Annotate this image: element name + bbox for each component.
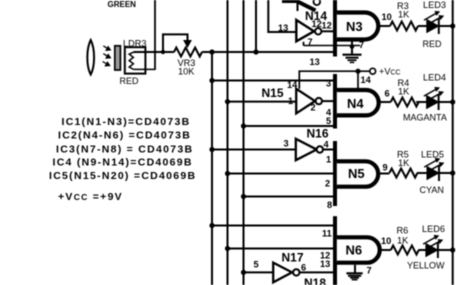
svg-text:14: 14	[361, 75, 372, 85]
AND gate N5	[337, 161, 378, 186]
wire N6 output	[379, 249, 391, 251]
green sense line	[154, 0, 156, 70]
svg-text:LED3: LED3	[423, 0, 446, 10]
ground (row1)	[343, 55, 362, 63]
light arrows into LDR3	[103, 46, 111, 66]
LED common bus	[452, 0, 454, 285]
svg-text:1K: 1K	[398, 87, 410, 97]
wire N5 pin2	[225, 171, 230, 176]
svg-text:CYAN: CYAN	[420, 185, 444, 195]
svg-text:3: 3	[284, 139, 289, 149]
wire R6 to LED6	[419, 249, 427, 251]
svg-text:1: 1	[288, 96, 293, 106]
svg-text:3: 3	[326, 79, 331, 89]
AND gate N3	[337, 13, 379, 40]
AND gate N6	[337, 237, 380, 262]
ground (row4)	[354, 265, 356, 273]
wire pin14 to N4 top	[357, 71, 359, 90]
resistor R5	[389, 169, 417, 178]
svg-text:LED6: LED6	[422, 224, 445, 234]
wire LED6 to bus	[438, 249, 453, 251]
svg-text:N15: N15	[262, 86, 284, 100]
svg-text:10: 10	[381, 236, 391, 246]
wire N17 out to N6	[300, 271, 335, 273]
svg-text:IC5(N15-N20) =CD4069B: IC5(N15-N20) =CD4069B	[49, 170, 196, 182]
wire +Vcc rail (row2)	[299, 71, 370, 89]
svg-text:12: 12	[312, 19, 322, 29]
svg-text:13: 13	[320, 259, 330, 269]
bus line D	[255, 0, 257, 52]
junction main wire to bus A	[209, 49, 214, 54]
+Vcc terminal	[370, 68, 376, 74]
wire N16 out to N5	[323, 149, 335, 151]
wire LDR bottom to green line	[133, 68, 155, 70]
AND gate N6 input bar	[333, 216, 337, 285]
svg-text:11: 11	[322, 229, 332, 239]
wire N14 output to N3	[321, 30, 334, 32]
resistor R6	[391, 246, 419, 255]
svg-text:+VCC =+9V: +VCC =+9V	[58, 191, 123, 203]
wire N4 pin3	[209, 78, 214, 83]
svg-text:N5: N5	[348, 166, 365, 181]
wire R4 to LED4	[416, 101, 427, 103]
wire LED3 to bus	[439, 25, 453, 27]
AND gate N3 input bar	[333, 0, 337, 57]
svg-text:5: 5	[326, 116, 331, 126]
bus line C	[243, 0, 245, 285]
wire R3 to LED3	[418, 25, 427, 27]
wire N3 pin7 stem	[351, 42, 353, 55]
wire N15 input	[225, 99, 230, 104]
wire N6 pin12	[225, 246, 230, 251]
svg-text:RED: RED	[120, 76, 140, 86]
svg-text:LED5: LED5	[421, 150, 444, 160]
wire N5 output	[378, 173, 389, 175]
svg-text:6: 6	[385, 89, 390, 99]
AND gate N4	[337, 90, 379, 115]
resistor R4	[391, 98, 419, 107]
svg-text:1K: 1K	[398, 10, 410, 20]
svg-text:5: 5	[254, 260, 259, 270]
LED6	[423, 235, 443, 258]
svg-text:IC1(N1-N3)=CD4073B: IC1(N1-N3)=CD4073B	[62, 116, 191, 128]
inverter N13 fragment (cut by top edge)	[282, 0, 320, 11]
svg-text:2: 2	[311, 103, 316, 113]
inverter N16	[296, 139, 323, 160]
resistor R3	[390, 22, 418, 31]
svg-text:13: 13	[310, 57, 320, 67]
svg-text:13: 13	[278, 23, 288, 33]
wire N17 input	[241, 270, 246, 275]
svg-text:1K: 1K	[397, 236, 409, 246]
svg-text:12: 12	[322, 21, 332, 31]
svg-text:N6: N6	[346, 243, 363, 258]
svg-text:GREEN: GREEN	[108, 0, 137, 9]
potentiometer VR3	[163, 34, 202, 56]
lens	[87, 40, 94, 75]
svg-text:10K: 10K	[178, 67, 195, 77]
svg-text:6: 6	[301, 263, 306, 273]
svg-text:N4: N4	[347, 96, 364, 111]
svg-text:4: 4	[324, 140, 330, 150]
wire N14 input pin 13	[268, 0, 295, 32]
wire N4 output	[379, 101, 391, 103]
svg-text:7: 7	[367, 266, 372, 276]
svg-text:1: 1	[326, 155, 331, 165]
svg-text:N3: N3	[346, 19, 363, 34]
wire N5 pin8	[241, 194, 246, 199]
svg-text:R6: R6	[397, 226, 409, 236]
wire IC4 pin7 ground lead	[304, 45, 361, 47]
svg-text:RED: RED	[423, 39, 443, 49]
AND gate N4 input bar	[333, 74, 337, 129]
AND gate N5 input bar	[333, 141, 337, 206]
svg-text:YELLOW: YELLOW	[407, 261, 445, 271]
svg-text:1K: 1K	[398, 158, 410, 168]
svg-text:MAGANTA: MAGANTA	[403, 113, 447, 123]
LDR3 photoresistor bar	[115, 46, 121, 70]
svg-text:N16: N16	[307, 127, 329, 141]
wire N15 out to N4	[322, 100, 335, 102]
wire N16 input	[209, 147, 214, 152]
svg-text:IC2(N4-N6) =CD4073B: IC2(N4-N6) =CD4073B	[58, 130, 191, 142]
wire N6 pin11	[209, 223, 214, 228]
inverter N17	[273, 263, 299, 283]
svg-text:7: 7	[359, 40, 364, 50]
LED4	[424, 87, 444, 110]
svg-text:2: 2	[325, 179, 330, 189]
svg-text:IC4 (N9-N14)=CD4069B: IC4 (N9-N14)=CD4069B	[53, 157, 193, 169]
LED3	[424, 11, 444, 34]
inverter N15	[296, 89, 322, 114]
LDR3 resistor box	[125, 47, 146, 73]
svg-text:IC3(N7-N8) = CD4073B: IC3(N7-N8) = CD4073B	[56, 143, 193, 155]
bus line B	[227, 0, 229, 285]
LED5	[424, 158, 444, 181]
wire LED4 to bus	[439, 101, 453, 103]
svg-text:8: 8	[327, 200, 332, 210]
svg-text:LED4: LED4	[423, 73, 446, 83]
wire R5 to LED5	[417, 172, 427, 174]
wire N3 output	[379, 25, 390, 27]
inverter N14	[296, 20, 321, 41]
wire N4 pin5	[241, 123, 246, 128]
wire main sense node	[133, 51, 174, 53]
svg-text:10: 10	[382, 12, 392, 22]
svg-text:9: 9	[383, 163, 388, 173]
bus line A	[211, 52, 213, 285]
svg-text:7: 7	[308, 37, 313, 47]
wire LED5 to bus	[439, 172, 453, 174]
svg-text:N18: N18	[304, 276, 326, 285]
